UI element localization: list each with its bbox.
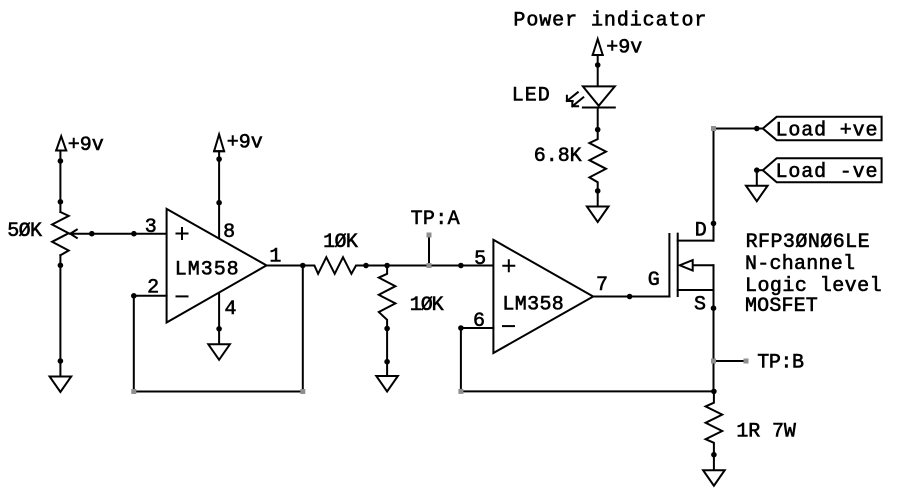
wire drain to load [714,129,763,241]
node dot [58,199,64,205]
node dot pin6 [458,325,464,331]
minus input marker U1 [177,295,188,297]
wire pin 6 stub [461,327,494,329]
wire pin 8 [218,151,220,238]
svg-text:+9v: +9v [227,132,263,155]
node dot [58,158,64,164]
svg-text:6.8K: 6.8K [534,145,582,168]
MOSFET Q1 body arrow [680,260,714,270]
minus input marker U2 [503,325,514,327]
node dot load- [754,167,760,173]
wire U2 output to gate [593,296,669,298]
test point TP:B [711,359,749,364]
feedback wire U1 [134,266,303,392]
svg-text:8: 8 [223,221,235,244]
gray handle [131,389,136,394]
node dot junction 1R [711,389,717,395]
node dot [131,231,137,237]
node dot gate [627,294,633,300]
ground (U1 pin 4) [208,344,230,360]
node dot [384,326,390,332]
ground (10K vertical) [376,362,398,392]
node dot [216,156,222,162]
resistor 1R 7W [706,391,723,454]
flag Load +ve [763,117,882,140]
gray handle [300,389,305,394]
resistor 10K (horizontal) [303,257,366,274]
svg-text:7: 7 [596,274,608,297]
svg-text:3: 3 [145,216,157,239]
node dot [216,326,222,332]
node dot [595,62,601,68]
ground (LED branch) [587,191,609,222]
node dot [384,359,390,365]
wire load-ve stub [757,169,763,171]
LED D1 [583,86,615,129]
node dot [711,452,717,458]
svg-text:1ØK: 1ØK [323,231,358,254]
wire mid row [366,265,493,267]
svg-text:LM358: LM358 [175,259,239,282]
node dot [58,263,64,269]
node dot [595,188,601,194]
ground (pot) [50,361,72,392]
gray handle [711,126,716,131]
plus input marker U1 [177,228,188,239]
wire wiper to pin3 [92,233,167,235]
resistor 10K (vertical) [379,266,396,329]
node dot [216,200,222,206]
test point TP:A [427,233,432,269]
svg-text:LED: LED [512,85,550,108]
svg-text:N-channel: N-channel [745,253,855,276]
svg-text:5ØK: 5ØK [7,220,42,243]
node dot [58,358,64,364]
op-amp U1 LM358 [167,209,267,323]
node dot pin5 [458,263,464,269]
wire pot top [59,151,61,213]
flag Load -ve [763,158,882,182]
svg-text:1ØK: 1ØK [410,294,444,317]
svg-text:S: S [694,294,706,317]
MOSFET Q1 gate bar [668,234,670,297]
wire U1 output [267,265,303,267]
MOSFET Q1 drain lead [678,129,714,241]
node dot U1 output [300,263,306,269]
node dot [363,263,369,269]
wire pot bottom [59,255,61,361]
node dot junction [384,263,390,269]
svg-text:RFP3ØNØ6LE: RFP3ØNØ6LE [746,231,870,254]
svg-text:+9v: +9v [68,134,104,157]
svg-text:+9v: +9v [606,37,642,60]
svg-text:D: D [695,220,707,243]
wire to LED [597,55,599,86]
node dot wiper [89,231,95,237]
svg-text:G: G [648,269,660,292]
svg-text:TP:A: TP:A [411,208,460,231]
svg-text:5: 5 [474,248,486,271]
ground (1R) [703,455,725,486]
MOSFET Q1 source lead [678,265,714,391]
svg-text:TP:B: TP:B [757,351,804,374]
svg-text:Load +ve: Load +ve [776,120,878,143]
wire to ground [386,329,388,362]
svg-text:4: 4 [225,298,237,321]
svg-text:MOSFET: MOSFET [745,295,818,318]
svg-text:1R 7W: 1R 7W [736,420,796,443]
svg-text:Load -ve: Load -ve [776,161,878,184]
gray handle [458,389,463,394]
ground (load -ve) [746,170,768,201]
power symbol +9v (LED branch) [593,39,603,55]
svg-text:6: 6 [473,310,485,333]
resistor 6.8K [589,130,606,191]
power symbol +9v (pot branch) [56,136,66,150]
node dot load+ [754,126,760,132]
feedback wire U2 [461,328,714,391]
op-amp U2 LM358 [493,240,593,353]
potentiometer wiper arrow [70,230,92,238]
power symbol +9v (U1 pin 8) [214,134,224,151]
svg-text:Power indicator: Power indicator [513,10,706,33]
MOSFET Q1 channel bar [677,234,679,296]
node dot pin2 [131,293,137,299]
node dot drain [711,221,717,227]
LED emission arrows [567,92,578,101]
wire pin 4 [218,294,220,345]
potentiometer 50K body [52,212,69,255]
plus input marker U2 [503,260,514,271]
node dot [595,127,601,133]
node dot source [711,305,717,311]
svg-text:LM358: LM358 [502,294,563,317]
